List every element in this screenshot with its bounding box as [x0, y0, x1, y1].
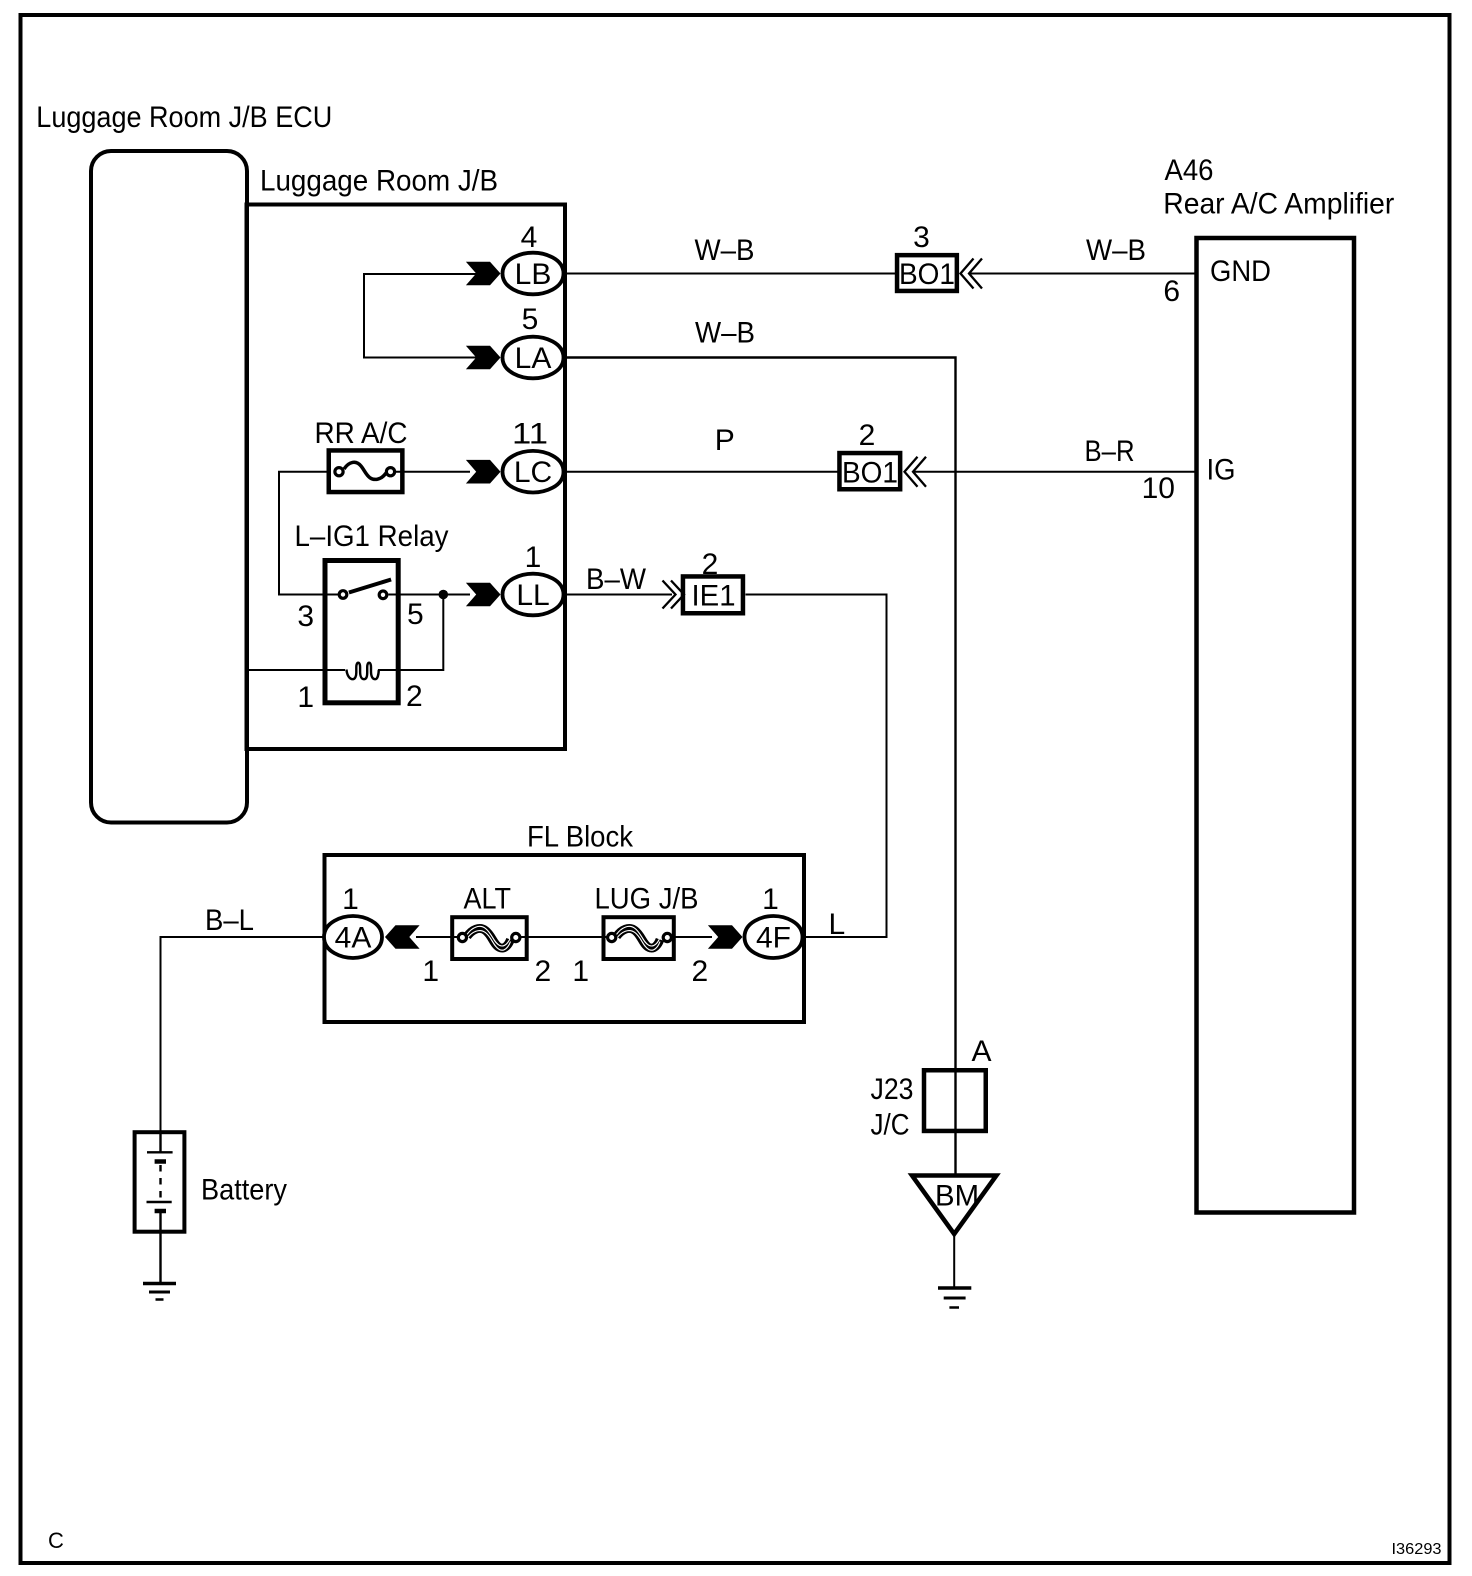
ground connector BM triangle — [912, 1176, 996, 1235]
svg-text:3: 3 — [913, 221, 930, 254]
connector 4A pin 1 — [324, 883, 420, 958]
wire 4A arrow to ALT — [416, 936, 458, 938]
svg-text:J23: J23 — [871, 1073, 914, 1106]
svg-text:FL Block: FL Block — [527, 821, 634, 854]
wire LUG J/B to 4F arrow — [672, 936, 712, 938]
svg-text:B–L: B–L — [205, 904, 254, 937]
svg-text:1: 1 — [297, 681, 314, 714]
svg-text:Luggage Room J/B ECU: Luggage Room J/B ECU — [36, 101, 332, 134]
chevron IE1 — [663, 581, 685, 609]
svg-text:4: 4 — [521, 221, 538, 254]
svg-text:1: 1 — [525, 541, 542, 574]
svg-text:4F: 4F — [756, 922, 791, 955]
battery — [135, 1132, 185, 1284]
svg-text:3: 3 — [297, 600, 314, 633]
svg-text:BO1: BO1 — [899, 258, 955, 291]
wire BO1 to GND — [969, 273, 1197, 275]
junction block Luggage Room J/B — [247, 205, 566, 750]
svg-text:LA: LA — [515, 342, 552, 375]
fuse LUG J/B — [572, 883, 708, 989]
ground battery — [143, 1284, 176, 1300]
connector BO1 pin 3 — [897, 221, 957, 291]
connector BO1 pin 2 — [839, 419, 900, 490]
wire ECU to relay coil pin 1 — [249, 669, 345, 671]
fuse RR A/C — [329, 450, 403, 492]
block Luggage Room J/B ECU — [91, 151, 247, 823]
svg-text:5: 5 — [522, 303, 539, 336]
svg-text:L: L — [829, 908, 846, 941]
svg-text:RR A/C: RR A/C — [315, 417, 408, 450]
fuse ALT — [422, 883, 551, 989]
block FL Block — [325, 855, 805, 1022]
junction node — [439, 590, 449, 600]
svg-text:LB: LB — [515, 258, 552, 291]
wire ALT to LUG J/B — [521, 936, 607, 938]
svg-text:LL: LL — [516, 579, 549, 612]
svg-text:Battery: Battery — [201, 1174, 287, 1207]
wire fuse left to relay pin 3 — [279, 472, 339, 595]
svg-text:10: 10 — [1142, 472, 1175, 505]
svg-text:P: P — [715, 424, 735, 457]
svg-text:IG: IG — [1207, 454, 1236, 487]
svg-text:Rear A/C Amplifier: Rear A/C Amplifier — [1163, 188, 1394, 221]
wire LC to BO1 — [565, 471, 840, 473]
wire LB to LA jumper — [364, 274, 478, 358]
svg-text:1: 1 — [572, 955, 589, 988]
svg-text:BO1: BO1 — [842, 457, 898, 490]
relay coil — [347, 663, 379, 679]
svg-text:LUG J/B: LUG J/B — [595, 883, 699, 916]
wire LL to IE1 — [565, 594, 672, 596]
connector LC pin 11 — [466, 418, 564, 493]
svg-text:I36293: I36293 — [1392, 1541, 1442, 1558]
ground BM — [938, 1288, 971, 1308]
svg-text:A: A — [972, 1035, 992, 1068]
svg-text:LC: LC — [514, 456, 552, 489]
svg-text:2: 2 — [406, 680, 423, 713]
svg-text:1: 1 — [422, 955, 439, 988]
wire fuse to LC arrow — [396, 471, 470, 473]
connector LB pin 4 — [466, 221, 564, 294]
svg-text:J/C: J/C — [871, 1109, 910, 1142]
svg-text:GND: GND — [1210, 255, 1271, 288]
svg-text:C: C — [48, 1528, 64, 1553]
connector LL pin 1 — [466, 541, 564, 615]
wire relay pin 5 to LL arrow — [388, 594, 470, 596]
relay switch contacts — [339, 580, 391, 599]
svg-text:W–B: W–B — [695, 234, 755, 267]
svg-text:B–R: B–R — [1085, 435, 1135, 468]
svg-text:Luggage Room J/B: Luggage Room J/B — [260, 165, 498, 198]
svg-text:11: 11 — [512, 418, 548, 451]
wire IE1 to 4F — [746, 595, 887, 938]
svg-text:1: 1 — [762, 883, 779, 916]
svg-text:2: 2 — [692, 955, 709, 988]
svg-text:2: 2 — [535, 955, 552, 988]
junction connector J23 J/C — [924, 1070, 986, 1131]
svg-text:W–B: W–B — [695, 317, 755, 350]
wire B-L battery to 4A — [161, 937, 324, 1132]
svg-text:A46: A46 — [1165, 154, 1214, 187]
wire BM to ground — [953, 1234, 955, 1288]
wire LA to J23 — [565, 358, 956, 1175]
svg-text:5: 5 — [407, 598, 424, 631]
wire relay coil pin 2 to junction — [378, 595, 443, 671]
svg-text:L–IG1 Relay: L–IG1 Relay — [295, 520, 449, 553]
svg-text:2: 2 — [859, 419, 876, 452]
connector LA pin 5 — [466, 303, 564, 378]
wire LB to BO1 — [565, 273, 897, 275]
svg-text:ALT: ALT — [464, 883, 512, 916]
svg-text:IE1: IE1 — [692, 580, 736, 613]
wire BO1 to IG — [913, 471, 1197, 473]
svg-text:4A: 4A — [335, 922, 372, 955]
connector IE1 pin 2 — [683, 548, 743, 613]
svg-text:B–W: B–W — [586, 563, 647, 596]
chevron BO1 pin 2 — [905, 457, 927, 487]
svg-text:1: 1 — [342, 883, 359, 916]
relay L-IG1 box — [325, 561, 398, 703]
svg-text:BM: BM — [935, 1180, 979, 1213]
connector 4F pin 1 — [708, 883, 803, 958]
chevron BO1 pin 3 — [961, 259, 983, 289]
block A46 Rear A/C Amplifier — [1197, 238, 1355, 1213]
svg-text:W–B: W–B — [1086, 234, 1146, 267]
svg-text:6: 6 — [1163, 275, 1180, 308]
